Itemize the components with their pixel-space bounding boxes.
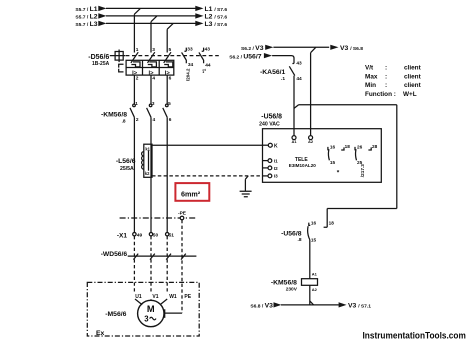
svg-text:6mm²: 6mm² bbox=[181, 189, 201, 198]
svg-text:18: 18 bbox=[345, 144, 351, 149]
svg-text:E3IM10AL20: E3IM10AL20 bbox=[289, 163, 317, 168]
svg-text:client: client bbox=[404, 73, 422, 80]
svg-text:Max: Max bbox=[365, 73, 378, 80]
svg-text:230V: 230V bbox=[286, 287, 298, 293]
svg-text:-PE: -PE bbox=[178, 211, 187, 217]
svg-text:51: 51 bbox=[169, 233, 175, 239]
svg-text:S5.7 / L1: S5.7 / L1 bbox=[75, 6, 97, 13]
svg-text:W+L: W+L bbox=[403, 91, 417, 98]
svg-text:18: 18 bbox=[329, 221, 335, 226]
svg-text:-KA56/1: -KA56/1 bbox=[260, 69, 286, 76]
svg-text:L2 / S7.6: L2 / S7.6 bbox=[205, 14, 228, 21]
svg-text:.8: .8 bbox=[122, 119, 126, 125]
svg-text:15: 15 bbox=[311, 238, 317, 243]
svg-text:I1: I1 bbox=[274, 159, 278, 164]
svg-text:16: 16 bbox=[311, 221, 317, 226]
svg-text:S6.2 / U56/7: S6.2 / U56/7 bbox=[229, 53, 261, 60]
svg-text:I>: I> bbox=[132, 70, 138, 76]
svg-text:49: 49 bbox=[137, 233, 143, 239]
svg-text:*1: *1 bbox=[202, 68, 207, 73]
svg-text:3: 3 bbox=[152, 47, 155, 53]
svg-text:3: 3 bbox=[144, 315, 149, 324]
svg-text:-D56/6: -D56/6 bbox=[88, 54, 109, 61]
svg-text:V/t: V/t bbox=[365, 65, 374, 72]
svg-text:V3 / S7.1: V3 / S7.1 bbox=[348, 302, 371, 309]
svg-text:-KM56/8: -KM56/8 bbox=[271, 280, 297, 287]
svg-text::: : bbox=[385, 82, 387, 89]
svg-text:k2: k2 bbox=[145, 171, 150, 176]
svg-text:PE: PE bbox=[184, 294, 191, 300]
svg-text:k1: k1 bbox=[145, 146, 150, 151]
svg-text:I>: I> bbox=[149, 70, 155, 76]
svg-text:S5.7 / L2: S5.7 / L2 bbox=[75, 14, 97, 21]
svg-text:33: 33 bbox=[187, 46, 193, 52]
svg-text:A1: A1 bbox=[291, 139, 297, 144]
svg-text:1: 1 bbox=[135, 101, 138, 106]
svg-text:4: 4 bbox=[153, 117, 156, 123]
svg-text:43: 43 bbox=[205, 46, 211, 52]
svg-text:.8: .8 bbox=[297, 237, 301, 243]
svg-text:.1: .1 bbox=[281, 76, 285, 82]
svg-text:S6.8 / V3: S6.8 / V3 bbox=[250, 302, 273, 309]
svg-text:L3 / S7.6: L3 / S7.6 bbox=[205, 21, 228, 28]
svg-text:V3 / S6.8: V3 / S6.8 bbox=[340, 45, 363, 52]
svg-text::: : bbox=[385, 65, 387, 72]
svg-text:34: 34 bbox=[188, 62, 194, 68]
svg-text:-U56/8: -U56/8 bbox=[281, 230, 302, 237]
svg-text:-KM56/8: -KM56/8 bbox=[101, 111, 127, 118]
svg-text:5: 5 bbox=[169, 47, 172, 53]
svg-text:client: client bbox=[404, 65, 422, 72]
svg-text:43: 43 bbox=[296, 61, 302, 67]
svg-text:-WD56/6: -WD56/6 bbox=[101, 251, 128, 258]
svg-text:-M56/6: -M56/6 bbox=[105, 311, 126, 318]
svg-text:6: 6 bbox=[169, 117, 172, 123]
svg-text:W1: W1 bbox=[169, 294, 177, 300]
svg-text:Ex: Ex bbox=[96, 330, 105, 337]
svg-text:26: 26 bbox=[357, 145, 363, 150]
svg-text:A1: A1 bbox=[312, 272, 318, 277]
svg-text:K: K bbox=[274, 144, 278, 150]
svg-text:25/5A: 25/5A bbox=[120, 166, 134, 172]
svg-text:V1: V1 bbox=[152, 294, 158, 300]
svg-text:L1 / S7.6: L1 / S7.6 bbox=[205, 6, 228, 13]
svg-text:50: 50 bbox=[153, 233, 159, 239]
svg-text:InstrumentationTools.com: InstrumentationTools.com bbox=[363, 330, 466, 341]
svg-text:3: 3 bbox=[152, 101, 155, 106]
svg-text:I2: I2 bbox=[274, 166, 278, 171]
svg-text:*: * bbox=[337, 170, 340, 177]
svg-text:-U56/8: -U56/8 bbox=[261, 113, 282, 120]
svg-text:1B-25A: 1B-25A bbox=[92, 61, 110, 67]
svg-text:44: 44 bbox=[205, 62, 211, 68]
svg-text:/217.3: /217.3 bbox=[360, 164, 365, 177]
svg-text:S5.7 / L3: S5.7 / L3 bbox=[75, 21, 97, 28]
svg-text::: : bbox=[385, 73, 387, 80]
svg-text:-X1: -X1 bbox=[117, 232, 128, 239]
svg-text:16: 16 bbox=[330, 145, 336, 150]
svg-text:client: client bbox=[404, 82, 422, 89]
svg-text:44: 44 bbox=[296, 76, 302, 82]
svg-text:A2: A2 bbox=[312, 287, 318, 292]
svg-text:1: 1 bbox=[136, 47, 139, 53]
svg-text:Function :: Function : bbox=[365, 91, 396, 98]
svg-text:28: 28 bbox=[372, 144, 378, 149]
svg-text:I>: I> bbox=[165, 70, 171, 76]
svg-text:240 VAC: 240 VAC bbox=[259, 121, 280, 127]
svg-text:U1: U1 bbox=[135, 294, 142, 300]
svg-text:/204.2: /204.2 bbox=[185, 68, 190, 81]
svg-text:2: 2 bbox=[136, 117, 139, 123]
svg-text:S6.2 / V3: S6.2 / V3 bbox=[241, 45, 264, 52]
svg-text:5: 5 bbox=[168, 101, 171, 106]
svg-text:-L56/6: -L56/6 bbox=[116, 158, 136, 165]
svg-text:Min: Min bbox=[365, 82, 376, 89]
svg-text:I3: I3 bbox=[274, 174, 278, 179]
svg-text:15: 15 bbox=[330, 160, 336, 165]
svg-text:M: M bbox=[147, 304, 155, 314]
svg-text:A2: A2 bbox=[308, 139, 314, 144]
